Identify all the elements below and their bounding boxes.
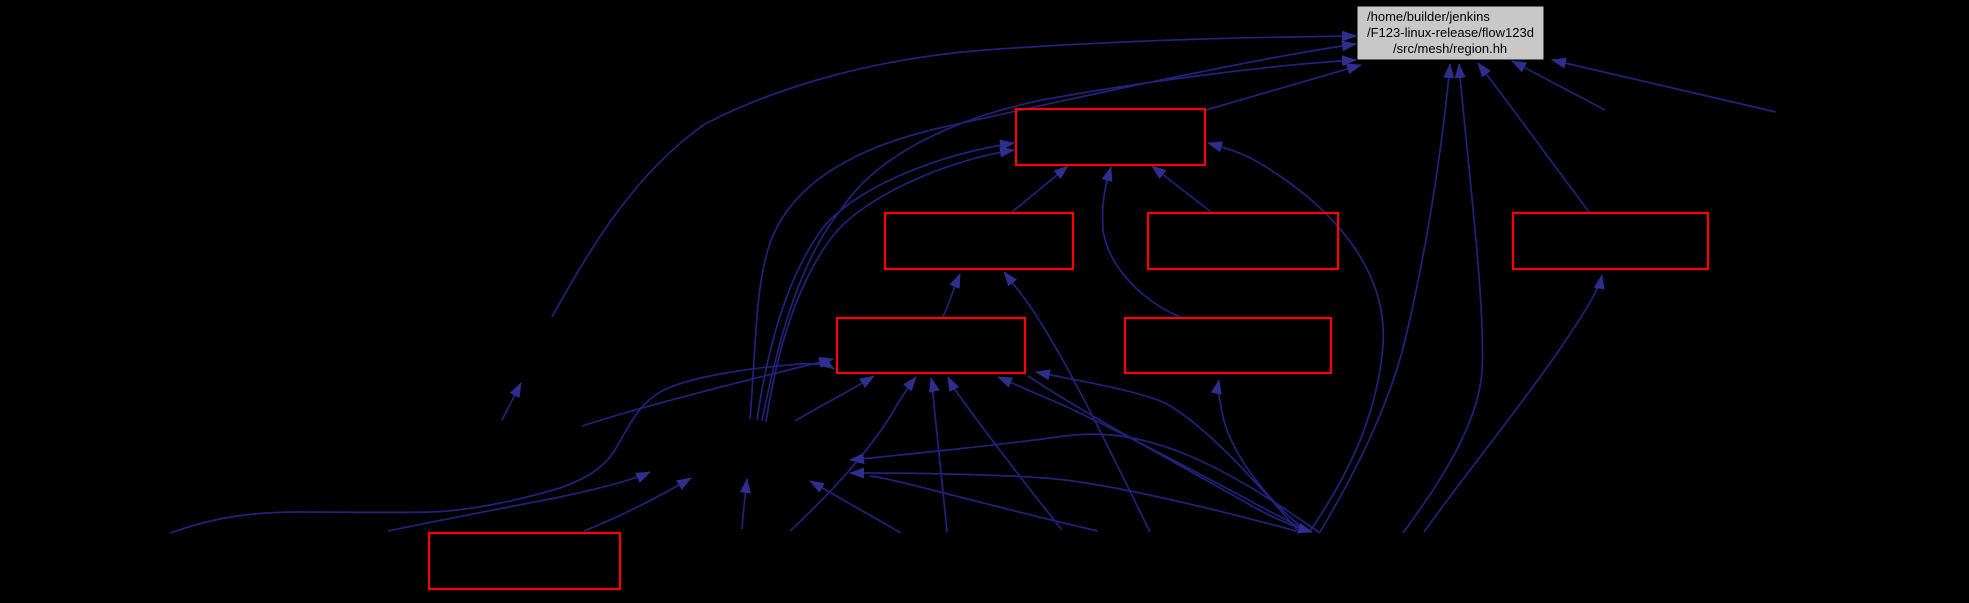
- wire into invisible hub I4 bottom from lower right: [810, 481, 901, 533]
- wire from invisible bottom node to node B5 bottom-right big arrow: [998, 377, 1307, 531]
- wire S1 from invisible node I1 top-right to region.hh bottom-right corner: [1552, 60, 1776, 112]
- wire V1 from bottom hub up to region.hh bottom edge: [1320, 64, 1450, 532]
- node B4: [1513, 213, 1708, 269]
- wire BL1 from invisible hub to node B1 left edge upper arrow: [757, 143, 1014, 420]
- wire W1 long wave from far left invisible node to node B5 left edge lower arrow: [170, 364, 834, 533]
- wire from bottom hub to node B6 bottom: [1218, 380, 1305, 530]
- wire from node B5 bottom-right corner down into bottom hub top with arrow: [1028, 376, 1312, 532]
- wire W3 from invisible bottom node to invisible hub I4 left edge: [388, 472, 650, 531]
- svg-text:/src/mesh/region.hh: /src/mesh/region.hh: [1393, 41, 1507, 56]
- wire from node B5 top-right to node B2 bottom right arrow: [1004, 272, 1150, 532]
- wire from node B6 top to node B1 bottom middle: [1103, 167, 1180, 317]
- wire V3 from node B4 top to region.hh bottom edge: [1478, 63, 1589, 212]
- wire from bottom hub right side to node B4 bottom: [1424, 275, 1602, 532]
- wire plain from invisible bottom node toward hub I4 right: [870, 476, 1098, 531]
- node B7: [429, 533, 620, 589]
- node B3: [1148, 213, 1338, 269]
- wire short stub into invisible node I3 bottom: [502, 383, 521, 420]
- wire C2 from invisible hub I4 top to region.hh left edge: [750, 44, 1356, 419]
- svg-text:/home/builder/jenkins: /home/builder/jenkins: [1367, 9, 1490, 24]
- wire S2 from invisible node I1 top-left to region.hh bottom edge: [1512, 61, 1605, 110]
- wire arc-A from invisible node I3 top to region.hh left edge: [552, 36, 1356, 317]
- wire vertical from invisible bottom node to node B5 bottom: [790, 377, 916, 531]
- node B1: [1016, 109, 1205, 165]
- wire from node B5 top to node B2 bottom left arrow: [943, 274, 960, 317]
- wire V2 from bottom hub bulging right to region.hh bottom edge: [1403, 64, 1483, 533]
- wire BL2 from invisible hub to node B1 left edge lower arrow: [766, 150, 1014, 422]
- wire from node B2 top to node B1 bottom: [1012, 166, 1068, 212]
- wire E1 from node B1 top-right corner to region.hh bottom-left corner: [1206, 65, 1361, 110]
- wire from invisible bottom node to node B5 bottom arrow 4: [948, 377, 1062, 530]
- wire C5 from bottom hub to node B1 right edge: [1208, 143, 1383, 531]
- node B5: [837, 318, 1025, 373]
- wire F3 from invisible hub I4 to region.hh bottom-left corner: [762, 60, 1356, 421]
- svg-text:/F123-linux-release/flow123d: /F123-linux-release/flow123d: [1367, 25, 1534, 40]
- wire from node B3 top to node B1 bottom: [1152, 166, 1211, 212]
- wire LA from invisible node I4b to node B5 left edge upper arrow: [582, 359, 833, 426]
- wire R1 from bottom hub to node B5 right edge arrow: [1036, 372, 1299, 532]
- node B6: [1125, 318, 1331, 373]
- node B2: [885, 213, 1073, 269]
- node region.hh grey label box: [1357, 6, 1544, 60]
- wire from invisible hub I4 top-left to node B5 bottom: [795, 376, 874, 421]
- wire from invisible bottom node to node B5 bottom: [931, 378, 947, 532]
- wire from node B7 top to invisible hub I4: [584, 478, 691, 531]
- wire short vertical into invisible hub I4 bottom: [742, 479, 747, 529]
- wire L_i4a from bottom hub bulging up to invisible hub I4 right edge: [850, 434, 1320, 533]
- wire L_i4b from bottom hub to invisible hub I4 right edge lower: [850, 473, 1296, 531]
